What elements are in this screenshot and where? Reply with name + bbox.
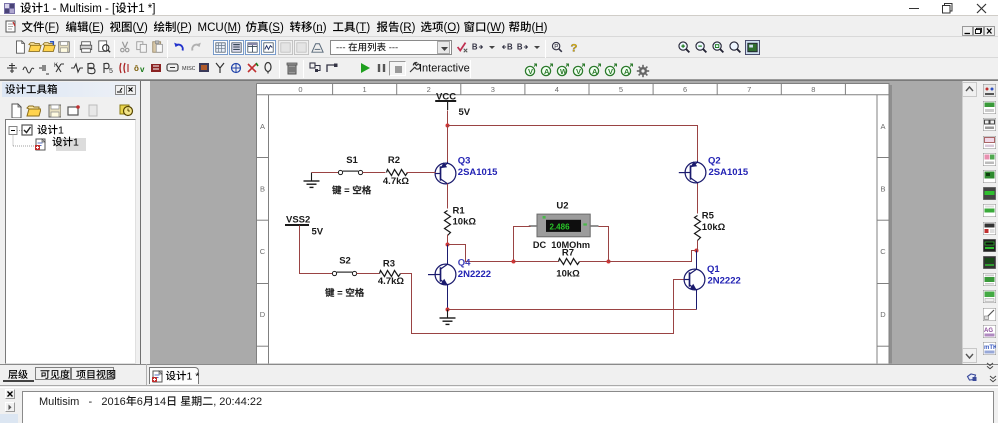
- transistor Q3 2SA1015 (PNP): [435, 155, 498, 185]
- svg-text:R5: R5: [702, 211, 715, 222]
- svg-text:VSS2: VSS2: [286, 214, 310, 225]
- svg-text:6: 6: [683, 85, 687, 94]
- switch S1 (key = space): [338, 155, 362, 175]
- svg-text:B: B: [881, 185, 886, 194]
- label key space for S1: [332, 185, 371, 196]
- svg-text:MISC: MISC: [182, 66, 195, 72]
- wire S1 to R2: [363, 172, 386, 174]
- wire U2 left terminal to rail: [514, 227, 531, 262]
- svg-text:2N2222: 2N2222: [458, 269, 491, 280]
- wire Q2 emitter down to R5: [697, 184, 699, 214]
- svg-text:10kΩ: 10kΩ: [702, 222, 726, 233]
- resistor R7 10k: [556, 247, 580, 279]
- svg-text:R2: R2: [388, 155, 400, 166]
- svg-text:8: 8: [811, 85, 815, 94]
- svg-text:C: C: [260, 247, 266, 256]
- svg-text:4: 4: [555, 85, 559, 94]
- svg-text:1: 1: [363, 85, 367, 94]
- wire node down to Q1 collector: [696, 251, 698, 270]
- node top rail junction at VCC: [446, 124, 450, 128]
- wire R5 to bottom node: [697, 241, 699, 251]
- wire U2 right terminal down to rail: [599, 227, 609, 262]
- svg-text:A: A: [624, 67, 630, 76]
- wire VCC down to top rail junction: [447, 111, 449, 126]
- wire Q3 collector down to R1: [447, 184, 449, 209]
- svg-text:Q4: Q4: [458, 257, 471, 268]
- wire VCC junction down to Q3 emitter: [447, 126, 449, 163]
- svg-text:2.486: 2.486: [550, 222, 571, 231]
- svg-text:Q1: Q1: [707, 264, 720, 275]
- svg-text:A: A: [260, 122, 265, 131]
- resistor R3 4.7k: [378, 258, 404, 287]
- svg-text:B: B: [517, 43, 523, 52]
- svg-text:D: D: [260, 310, 266, 319]
- node R1 / Q4 collector junction: [446, 243, 450, 247]
- svg-text:S1: S1: [346, 155, 358, 166]
- svg-text:U2: U2: [556, 201, 568, 212]
- wire Q4 emitter down to ground node: [447, 286, 449, 310]
- svg-text:R3: R3: [383, 258, 395, 269]
- svg-text:4.7kΩ: 4.7kΩ: [378, 276, 404, 287]
- svg-text:2SA1015: 2SA1015: [458, 167, 498, 178]
- ground below Q4: [440, 310, 456, 325]
- svg-text:Q2: Q2: [708, 156, 721, 167]
- svg-text:=: =: [335, 288, 346, 299]
- wire S2 to R3: [357, 273, 380, 275]
- svg-text:V: V: [528, 67, 533, 76]
- svg-text:2SA1015: 2SA1015: [709, 167, 749, 178]
- wire R7 to U2 right junction: [580, 261, 609, 263]
- wire rail to R5 bottom node: [609, 251, 697, 262]
- svg-text:A: A: [544, 67, 550, 76]
- svg-text:mTK: mTK: [984, 345, 996, 351]
- svg-text:Interactive: Interactive: [419, 63, 470, 75]
- svg-text:R7: R7: [562, 247, 574, 258]
- transistor Q2 2SA1015 (PNP): [679, 156, 749, 185]
- transistor Q4 2N2222 (NPN): [428, 257, 491, 286]
- svg-text:C: C: [880, 247, 886, 256]
- resistor R5 10k: [695, 211, 726, 241]
- svg-text:0: 0: [298, 85, 302, 94]
- wire emitter rail Q4 to Q1: [448, 309, 697, 311]
- svg-text:AG: AG: [984, 328, 993, 334]
- wire Q1 emitter down to rail: [696, 290, 698, 310]
- svg-text:K: K: [54, 63, 58, 69]
- ground at S1: [304, 173, 320, 188]
- wire R2 to Q3 base: [407, 172, 436, 174]
- svg-text:?: ?: [571, 42, 578, 54]
- svg-text:7: 7: [747, 85, 751, 94]
- svg-text:D: D: [880, 310, 886, 319]
- resistor R1 10k: [445, 206, 477, 236]
- svg-text:ô: ô: [134, 64, 139, 73]
- switch S2 (key = space): [332, 256, 356, 276]
- svg-text:B: B: [472, 43, 478, 52]
- svg-text:S2: S2: [339, 256, 351, 267]
- resistor R2 4.7k: [383, 155, 409, 187]
- node emitter rail ground junction: [446, 308, 450, 312]
- wire junction down to Q4 collector: [447, 245, 449, 265]
- power rail VCC symbol: [435, 92, 471, 118]
- wire R3 right to corner down to bottom rail toward Q1 base: [401, 274, 686, 334]
- wire junction jog to R7 rail: [448, 245, 514, 262]
- wire rail U2-left to R7: [514, 261, 559, 263]
- svg-text:2N2222: 2N2222: [708, 275, 741, 286]
- svg-text:5V: 5V: [459, 107, 471, 118]
- svg-text:A: A: [592, 67, 598, 76]
- node U2 right junction: [607, 260, 611, 264]
- svg-text:5: 5: [619, 85, 623, 94]
- label key space for S2: [325, 288, 364, 299]
- wire top rail from VCC junction to Q2 collector drop: [448, 126, 698, 163]
- svg-text:2: 2: [427, 85, 431, 94]
- svg-text:5: 5: [109, 68, 113, 75]
- svg-text:V: V: [576, 67, 581, 76]
- svg-text:P: P: [554, 43, 558, 50]
- transistor Q1 2N2222 (NPN): [684, 264, 741, 291]
- svg-text:5V: 5V: [312, 226, 324, 237]
- svg-text:10kΩ: 10kΩ: [556, 268, 580, 279]
- svg-text:4.7kΩ: 4.7kΩ: [383, 176, 409, 187]
- multimeter U2: [529, 201, 599, 250]
- svg-text:Q3: Q3: [458, 155, 471, 166]
- svg-text:3: 3: [491, 85, 495, 94]
- svg-text:10kΩ: 10kΩ: [453, 217, 477, 228]
- svg-text:v: v: [140, 65, 145, 74]
- wire ground to switch S1: [312, 172, 339, 174]
- svg-text:VCC: VCC: [436, 92, 456, 103]
- svg-text:R1: R1: [453, 206, 466, 217]
- svg-text:B: B: [260, 185, 265, 194]
- svg-text:B: B: [507, 43, 513, 52]
- svg-text:W: W: [560, 67, 568, 76]
- node U2 left junction: [512, 260, 516, 264]
- svg-text:=: =: [342, 186, 353, 197]
- wire VSS2 down and right to S2: [300, 226, 333, 274]
- svg-text:A: A: [881, 122, 886, 131]
- node R5 bottom / Q1 collector: [695, 249, 699, 253]
- wire R1 to collector junction: [447, 235, 449, 245]
- svg-text:V: V: [608, 67, 613, 76]
- power source VSS2 symbol: [285, 214, 324, 237]
